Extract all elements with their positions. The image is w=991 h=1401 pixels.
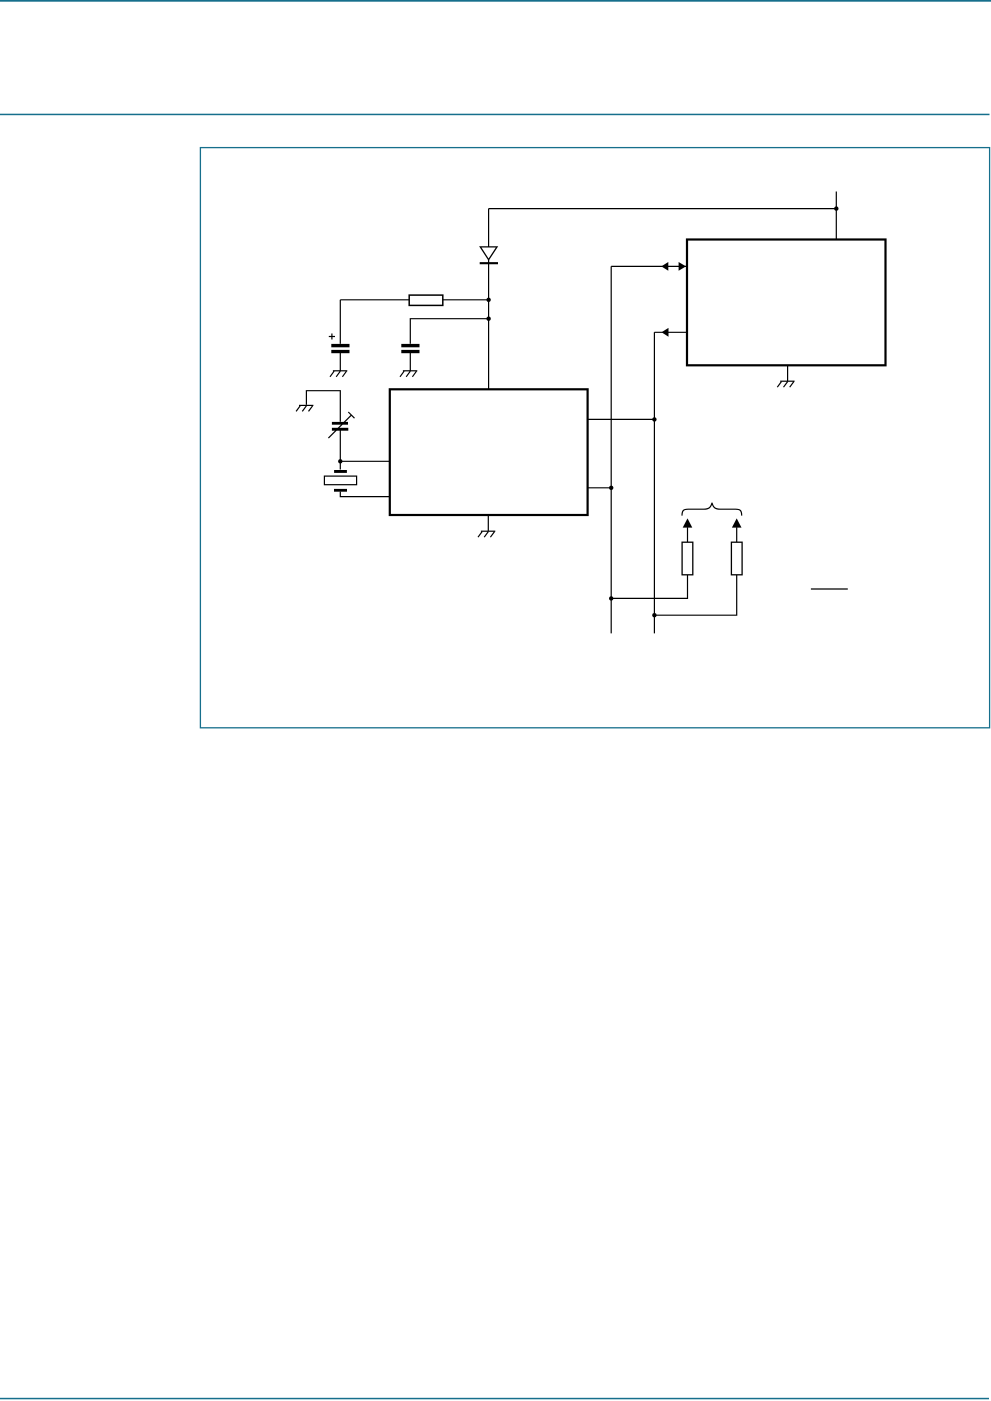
wire: SCL bus vertical xyxy=(653,332,655,633)
wire: R1 right lead xyxy=(444,299,489,301)
node: crystal junction xyxy=(338,459,342,463)
crystal X1 top plate xyxy=(334,470,347,473)
ground under C2 xyxy=(400,371,417,377)
capacitor CT trimmer plates xyxy=(332,422,348,431)
capacitor C1 plates xyxy=(331,344,349,353)
wire: VP stub up xyxy=(835,192,837,240)
resistor R1 xyxy=(409,295,443,305)
wire: diode branch vertical xyxy=(488,209,490,390)
wire: trimmer bottom lead xyxy=(339,430,341,461)
wire: crystal top lead xyxy=(339,461,341,469)
node: diode line junction lower xyxy=(486,317,490,321)
arrowhead SDA left xyxy=(661,262,668,271)
wire: VP top rail xyxy=(489,208,837,210)
resistor R2 pull-up xyxy=(682,542,693,575)
wire: R3 top lead xyxy=(736,528,738,543)
node: junction pullup right xyxy=(652,613,656,617)
wire: pullup right bottom xyxy=(654,575,736,615)
node label overline xyxy=(811,588,848,590)
wire: C1 bottom lead xyxy=(339,353,341,371)
wire: U1 right port lower xyxy=(588,487,612,489)
crystal X1 bottom plate xyxy=(334,489,347,492)
header rule xyxy=(0,114,990,116)
wire: trimmer top link xyxy=(306,391,340,422)
capacitor CT trimmer arrow xyxy=(328,412,354,438)
op-amp U2 microcontroller box xyxy=(687,240,886,366)
node: junction SCL top xyxy=(652,417,656,421)
wire: SCL horizontal to U2 xyxy=(654,331,687,333)
node: diode line junction upper xyxy=(486,298,490,302)
arrowhead R2 up xyxy=(683,518,693,527)
wire: C1 top lead xyxy=(339,300,341,344)
arrowhead R3 up xyxy=(732,518,742,527)
resistor R3 pull-up xyxy=(731,542,742,575)
page top bar xyxy=(0,0,991,2)
wire: crystal bottom lead to U1 xyxy=(340,492,390,497)
wire: C2 top lead xyxy=(410,319,488,344)
diode D1 triangle xyxy=(480,247,497,260)
brace over pull-ups xyxy=(682,503,742,516)
node: junction SDA mid xyxy=(609,486,613,490)
node: junction pullup left xyxy=(609,596,613,600)
arrowhead SDA right xyxy=(679,262,686,271)
capacitor C1 plus sign xyxy=(329,334,335,340)
wire: U2 ground stub xyxy=(787,365,789,381)
diode D1 cathode bar xyxy=(480,262,498,264)
wire: SDA bus vertical xyxy=(610,266,612,633)
wire: U1 ground stub xyxy=(487,515,489,531)
capacitor C2 plates xyxy=(401,344,419,353)
wire: pullup left bottom xyxy=(611,575,687,599)
figure frame xyxy=(200,148,989,728)
wire: U1 vcc stub top xyxy=(488,388,490,390)
node: VP junction xyxy=(834,206,838,210)
footer rule xyxy=(0,1398,989,1400)
ground under U1 xyxy=(478,531,495,537)
wire: C2 bottom lead xyxy=(409,353,411,371)
wire: crystal node to U1 xyxy=(340,460,390,462)
wire: U1 right port upper xyxy=(588,418,655,420)
crystal X1 body xyxy=(324,476,356,485)
arrowhead SCL left xyxy=(662,328,669,337)
wire: SDA horizontal to U2 xyxy=(611,265,687,267)
ground under U2 xyxy=(777,381,794,387)
ground under C1 xyxy=(330,371,347,377)
wire: R1 left lead xyxy=(340,299,409,301)
ground left of trimmer xyxy=(296,405,313,411)
wire: R2 top lead xyxy=(687,528,689,543)
op-amp U1 synthesizer box xyxy=(390,389,588,515)
